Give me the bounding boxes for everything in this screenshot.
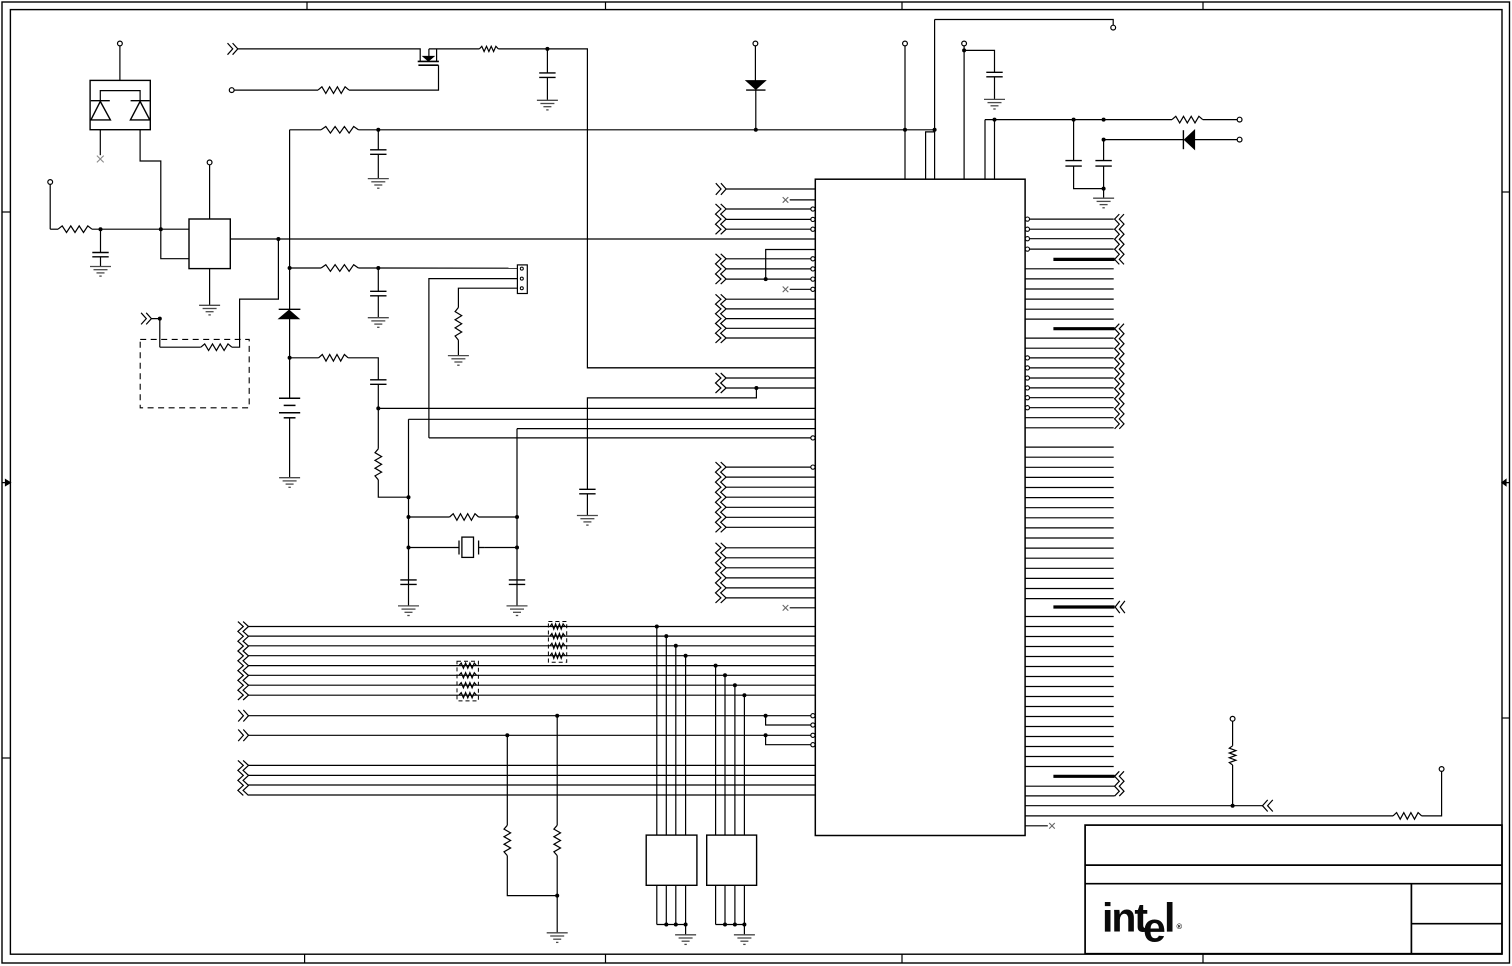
wire C3 bottom (377, 296, 379, 318)
wire IC pin L26 (726, 486, 815, 488)
off-page arrow IN1 (141, 313, 151, 325)
off-page arrow DATA C (1115, 601, 1125, 613)
wire IC pin R2 (1030, 228, 1114, 230)
wire VIN to Q1 drain (238, 49, 420, 62)
wire IC pin L47 bubble (811, 723, 815, 727)
wire VCC rail top (289, 130, 291, 268)
resistor R5 (319, 355, 349, 362)
wire IC pin R19 (1030, 407, 1114, 409)
dual diode CR1 left cathode bar (91, 100, 110, 102)
wire IC pin R54 (1025, 785, 1114, 787)
junction C7/C8 ground (1102, 187, 1106, 191)
wire IC pin L30 (726, 526, 815, 528)
junction AD1/RN1 (664, 634, 668, 638)
wire IC pin R38 (1025, 616, 1114, 618)
wire bus AD7 (249, 694, 816, 696)
wire CR1 right pin to node (140, 130, 189, 259)
intel logo (1102, 895, 1183, 951)
wire IC pin R49 (1025, 726, 1114, 728)
ground C11 (507, 606, 528, 616)
wire IC pin R19 bubble (1025, 406, 1029, 410)
wire IC pin R8 (1025, 298, 1114, 300)
junction CR4 row (1102, 138, 1106, 142)
resistor R7 (455, 308, 462, 341)
wire bus B2 (249, 784, 816, 786)
junction xtal B1 (515, 515, 519, 519)
resistor pack RP2 dashed box (457, 661, 478, 701)
wire IC pin L34 (726, 577, 815, 579)
wire IC pin R4 bubble (1025, 247, 1029, 251)
dual diode CR1 cathode link (100, 91, 140, 101)
wire Y1 left (409, 547, 454, 549)
header J1 pin 1 circle (520, 267, 523, 270)
wire CR2 to battery (289, 319, 291, 399)
wire bus AD4 (249, 665, 816, 667)
capacitor C8 (1095, 161, 1111, 167)
wire C7 bottom (1074, 166, 1104, 189)
junction AD4/RN2 (714, 664, 718, 668)
capacitor C9 (579, 489, 595, 494)
wire IC pin L23 bubble (811, 436, 815, 440)
resistor R15 (1393, 813, 1422, 820)
wire IC pin R50 (1025, 736, 1114, 738)
wire P4 to R9 (234, 89, 318, 91)
wire R6 to xtal node (378, 480, 408, 497)
wire IC pin R48 (1025, 716, 1114, 718)
wire IC pin R42 (1025, 656, 1114, 658)
junction IN1 (158, 317, 162, 321)
junction NET805/R14 (1231, 804, 1235, 808)
wire C9 bottom (586, 494, 588, 516)
wire IC pin L5 bubble (811, 227, 815, 231)
off-page arrows pins L12-L16 (716, 294, 727, 343)
wire IC pin R41 (1025, 646, 1114, 648)
transistor Q1 body diode (423, 56, 434, 61)
wire bus B3 (249, 794, 816, 796)
wire xtal right rail (516, 429, 518, 606)
dual diode CR1 right diode (130, 101, 149, 120)
wire IC pin R28 (1025, 507, 1114, 509)
junction pin L19 tap (754, 386, 758, 390)
off-page arrows pins L18-L19 (716, 373, 727, 393)
svg-text:e: e (1143, 905, 1166, 951)
ground C10 (398, 606, 419, 616)
wire R4 to header (358, 267, 517, 269)
wire IC pin R15 bubble (1025, 366, 1029, 370)
wire bus B0 (249, 764, 816, 766)
wire NET805 (1025, 805, 1262, 807)
capacitor C4 (370, 380, 386, 385)
resistor pack RP1 dashed box (548, 622, 566, 663)
ground C2 (368, 179, 389, 189)
diode CR4 cathode bar (1182, 130, 1184, 149)
wire IC pin L23 (429, 437, 811, 439)
wire AD5 to RN2 (724, 675, 726, 835)
wire IC pin R16 bubble (1025, 376, 1029, 380)
junction xtal A2 (407, 515, 411, 519)
wire IC pin R45 (1025, 686, 1114, 688)
junction NET716/R12 (555, 714, 559, 718)
wire IC pin L24 bubble (811, 465, 815, 469)
off-page arrow pin L1 (716, 183, 726, 195)
resistor R9 (318, 87, 349, 94)
wire AD6 to RN2 (734, 685, 736, 835)
off-page arrow VIN (228, 43, 238, 55)
wire C2 top (377, 130, 379, 150)
junction AD5/RN2 (723, 673, 727, 677)
wire NET736 (249, 734, 811, 736)
terminal P10 circle (1237, 137, 1242, 142)
wire RN1 bottom pin 3 (675, 885, 677, 924)
wire IC pin R12 (1025, 337, 1114, 339)
junction VCC/pin1 (903, 128, 907, 132)
wire IC pin L37 (790, 607, 816, 609)
wire IC pin L10 bubble (811, 277, 815, 281)
resistor RP2-3 (459, 683, 477, 688)
wire IC pin R43 (1025, 666, 1114, 668)
wire IC pin L11 (790, 288, 811, 290)
wire IC pin L32 (726, 557, 815, 559)
wire R2 to U2 output (232, 239, 279, 347)
wire P5 to CR3 (754, 46, 756, 81)
dual diode CR1 package box (90, 80, 150, 129)
wire IC pin R47 (1025, 706, 1114, 708)
resistor R3 (321, 127, 358, 134)
resistor RP2-1 (459, 663, 477, 668)
junction rail/R5 (288, 356, 292, 360)
wire NET716 to pin L47 (766, 716, 811, 725)
wire IC pin L1 (726, 188, 815, 190)
terminal P7 circle (1111, 25, 1116, 30)
wire IC pin R46 (1025, 696, 1114, 698)
junction VDD/pin6 (993, 118, 997, 122)
terminal P6 circle (903, 41, 908, 46)
resistor R13 (504, 825, 511, 855)
off-page arrows bus group 2 (238, 760, 249, 795)
ground RN2 (734, 935, 755, 945)
wire RN1 bottom pin 1 (656, 885, 658, 924)
terminal P1 circle (118, 41, 123, 46)
regulator U2 body (189, 219, 230, 269)
frame center arrow left (2, 480, 10, 486)
wire RN2 bottom pin 3 (734, 885, 736, 924)
junction R1/C1 (99, 227, 103, 231)
junction RN2 common x744 (742, 923, 746, 927)
wire IC pin R29 (1025, 517, 1114, 519)
junction NET736/R13 (505, 733, 509, 737)
ground C9 (577, 516, 598, 526)
capacitor C10 (400, 580, 416, 585)
wire C1 bottom (100, 257, 102, 267)
wire R3 to diode node (358, 129, 934, 131)
svg-text:int: int (1102, 895, 1148, 941)
wire IC pin R18 bubble (1025, 396, 1029, 400)
wire IC pin L10 (726, 278, 811, 280)
wire IC pin L14 (726, 318, 815, 320)
wire IC pin L11 bubble (811, 287, 815, 291)
terminal P11 circle (1230, 716, 1235, 721)
resistor R11 (450, 514, 479, 521)
wire IN1 to R2 node (151, 319, 159, 348)
wire C5 top (546, 49, 548, 73)
wire P2 down (49, 184, 51, 229)
wire IC pin R57 (1025, 825, 1048, 827)
wire IC pin R25 (1025, 476, 1114, 478)
wire IC pin L17 (587, 367, 815, 369)
wire IC pin L49 bubble (811, 743, 815, 747)
wire Q1 source out (429, 48, 480, 50)
wire IC pin L20 (378, 407, 815, 409)
wire IC pin R10 (1025, 318, 1114, 320)
no-connect pin R57 (1049, 823, 1055, 829)
wire IC pin L3 bubble (811, 207, 815, 211)
junction VDD/C7 (1072, 118, 1076, 122)
IC U1 main body (815, 179, 1025, 835)
wire R9 to Q1 gate (349, 65, 439, 90)
wire C4 to R6 (377, 384, 379, 449)
ground battery (279, 478, 300, 488)
wire IC pin R17 (1030, 387, 1114, 389)
wire R2 left (160, 346, 201, 348)
junction pin L7/L10 (764, 277, 768, 281)
capacitor C5 (539, 73, 555, 78)
dual diode CR1 left diode (91, 101, 111, 120)
wire R12 bottom (556, 856, 558, 933)
capacitor C1 (92, 253, 108, 257)
ground C1 (90, 267, 111, 277)
ground C7 C8 (1093, 198, 1114, 208)
wire AD1 to RN1 (665, 636, 667, 835)
junction AD6/RN2 (733, 683, 737, 687)
ground R7 (448, 356, 469, 366)
terminal P12 circle (1439, 767, 1444, 772)
junction AD2/RN1 (674, 644, 678, 648)
junction AD7/RN2 (742, 693, 746, 697)
resistor network RN2 body (707, 835, 757, 885)
junction NET716 tap (764, 714, 768, 718)
wire IC pin L12 (726, 298, 815, 300)
wire IC pin L28 (726, 506, 815, 508)
resistor RP2-4 (459, 693, 477, 698)
wire AD0 to RN1 (656, 627, 658, 836)
wire RN2 ground stub (743, 925, 745, 935)
wire bus AD1 (249, 635, 816, 637)
svg-text:l: l (1164, 895, 1175, 941)
resistor network RN1 body (646, 835, 697, 885)
terminal P3 circle (207, 160, 212, 165)
no-connect pin L37 (783, 605, 789, 611)
header J1 pin 3 circle (520, 287, 523, 290)
wire IC pin R15 (1030, 367, 1114, 369)
header J1 body (517, 265, 527, 294)
wire IC pin L2 (790, 199, 816, 201)
resistor RP1-4 (550, 653, 565, 658)
wire RN2 bottom pin 4 (743, 885, 745, 924)
title block outline (1085, 825, 1502, 954)
wire U2 bottom pin (209, 269, 211, 306)
wire R11 left (409, 516, 450, 518)
wire IC pin L36 (726, 597, 815, 599)
wire C3 top (377, 268, 379, 291)
wire IC pin R34 (1025, 567, 1114, 569)
wire IC pin L29 (726, 516, 815, 518)
capacitor C11 (509, 580, 525, 585)
title block row line 1 (1085, 864, 1502, 866)
wire IC pin R40 (1025, 636, 1114, 638)
wire IC pin L22 (517, 428, 815, 430)
wire IC pin R6 (1025, 278, 1114, 280)
battery BT1 (279, 398, 300, 418)
junction xtal A1 (407, 495, 411, 499)
wire IC pin R21 (1025, 427, 1114, 429)
junction R8/C5 (545, 47, 549, 51)
wire IC pin R35 (1025, 577, 1114, 579)
svg-text:®: ® (1177, 922, 1183, 931)
wire R5 left stub (290, 357, 319, 359)
off-page arrow NET805 (1263, 800, 1273, 812)
wire IC pin L4 bubble (811, 217, 815, 221)
crystal Y1 (454, 537, 485, 557)
resistor R1 (58, 226, 92, 233)
junction VDD/C8 (1102, 118, 1106, 122)
wire IC pin L27 (726, 496, 815, 498)
title block row line 2 (1085, 883, 1502, 885)
wire AD7 to RN2 (743, 695, 745, 835)
no-connect CR1 left pin (97, 156, 104, 163)
resistor RP1-2 (550, 634, 565, 639)
wire L19 tap down (587, 388, 756, 489)
wire IC pin L19 (726, 387, 815, 389)
wire C1 top (100, 229, 102, 252)
wire IC pin L7 (766, 250, 816, 280)
wire C5 bottom (546, 77, 548, 100)
wire IC top pin 5 (984, 120, 986, 180)
junction RN2 common x735 (733, 923, 737, 927)
off-page arrows pins L31-L36 (716, 543, 727, 603)
wire IC pin R51 (1025, 746, 1114, 748)
wire IC pin R5 (1025, 268, 1114, 270)
diode CR2 cathode bar (279, 308, 301, 310)
wire C6 branch (964, 50, 994, 72)
wire IC pin R36 (1025, 588, 1114, 590)
wire IC pin R18 (1030, 397, 1114, 399)
ground C3 (368, 318, 389, 328)
wire C2 bottom (377, 154, 379, 178)
wire Q1 source stub (436, 49, 438, 62)
junction CR1 pin / RC node (159, 227, 163, 231)
junction RN1 common x686 (684, 923, 688, 927)
junction xtal B2 (515, 546, 519, 550)
wire IC pin R26 (1025, 487, 1114, 489)
wire IC pin R27 (1025, 497, 1114, 499)
wire R8 to rail corner (498, 49, 815, 368)
wire IC top pin 4 (963, 46, 965, 179)
diode CR4 body (1184, 130, 1194, 149)
terminal P2 circle (48, 180, 53, 185)
wire P11 to R14 (1232, 721, 1234, 746)
wire R15 to P12 (1422, 771, 1442, 816)
junction R4/C3 (376, 266, 380, 270)
wire CR3 to VCC wire (755, 90, 757, 130)
wire C6 bottom (994, 77, 996, 100)
junction P8/C6 (962, 48, 966, 52)
wire bus AD3 (249, 655, 816, 657)
junction RN2 common x725 (723, 923, 727, 927)
junction RN1 common x676 (674, 923, 678, 927)
resistor R2 (201, 344, 232, 351)
header J1 pin 2 circle (520, 277, 523, 280)
wire IC pin R7 (1025, 288, 1114, 290)
dual diode CR1 right cathode bar (131, 100, 150, 102)
wire IC pin L24 (726, 466, 811, 468)
wire IC pin R53 (1025, 766, 1114, 768)
resistor RP1-1 (550, 624, 565, 629)
diode CR2 body (279, 310, 299, 319)
wire IC pin L9 bubble (811, 267, 815, 271)
wire R14 to NET805 (1232, 765, 1234, 806)
no-connect pin L2 (783, 197, 789, 203)
wire IC pin R33 (1025, 557, 1114, 559)
wire IC pin L4 (726, 218, 811, 220)
wire VDD right (985, 119, 1172, 121)
ground U2 (199, 305, 220, 315)
wire IC pin L15 (726, 327, 815, 329)
off-page zigzag group RF (1115, 771, 1124, 796)
frame center arrow right (1502, 480, 1510, 486)
wire C7 top (1073, 120, 1075, 161)
wire IC pin R4 (1030, 248, 1114, 250)
junction xtal A3 (407, 546, 411, 550)
no-connect pin L11 (783, 287, 789, 293)
ground RN1 (675, 935, 696, 945)
wire AD2 to RN1 (675, 646, 677, 835)
wire xtal left rail (408, 419, 410, 606)
wire IC pin R44 (1025, 676, 1114, 678)
wire R7 to ground (457, 340, 459, 356)
wire RN2 bottom pin 2 (724, 885, 726, 924)
junction R3/C2 (376, 128, 380, 132)
wire IC pin R9 (1025, 308, 1114, 310)
wire C8 bottom (1103, 166, 1105, 198)
wire rail to CR2 (289, 268, 291, 309)
wire Q1 body stub (428, 49, 430, 57)
wire IC pin R3 bubble (1025, 237, 1029, 241)
wire IC pin L33 (726, 567, 815, 569)
bus stub DATA A (1053, 258, 1114, 261)
capacitor C2 (370, 150, 386, 155)
transistor Q1 gate bar (418, 64, 438, 66)
wire P1 to dual diode (119, 46, 121, 81)
wire IC pin L31 (726, 547, 815, 549)
wire IC top pin 2 jog (926, 132, 935, 179)
off-page arrows bus AD0-AD7 (238, 622, 249, 700)
ground C6 (984, 99, 1005, 109)
wire R13 bottom (507, 856, 557, 896)
wire IC pin R39 (1025, 626, 1114, 628)
diode CR3 cathode bar (746, 89, 765, 91)
wire bus AD2 (249, 645, 816, 647)
ground R12 R13 (547, 933, 568, 943)
wire IC pin R14 bubble (1025, 356, 1029, 360)
capacitor C6 (986, 72, 1002, 77)
wire IC pin L3 (726, 208, 811, 210)
junction R12/R13 ground (555, 894, 559, 898)
wire IC pin L46 bubble (811, 714, 815, 718)
resistor R4 (321, 265, 358, 272)
resistor R10 (1172, 116, 1203, 123)
wire IC pin L5 (726, 228, 811, 230)
off-page arrow NET716 (238, 710, 248, 722)
